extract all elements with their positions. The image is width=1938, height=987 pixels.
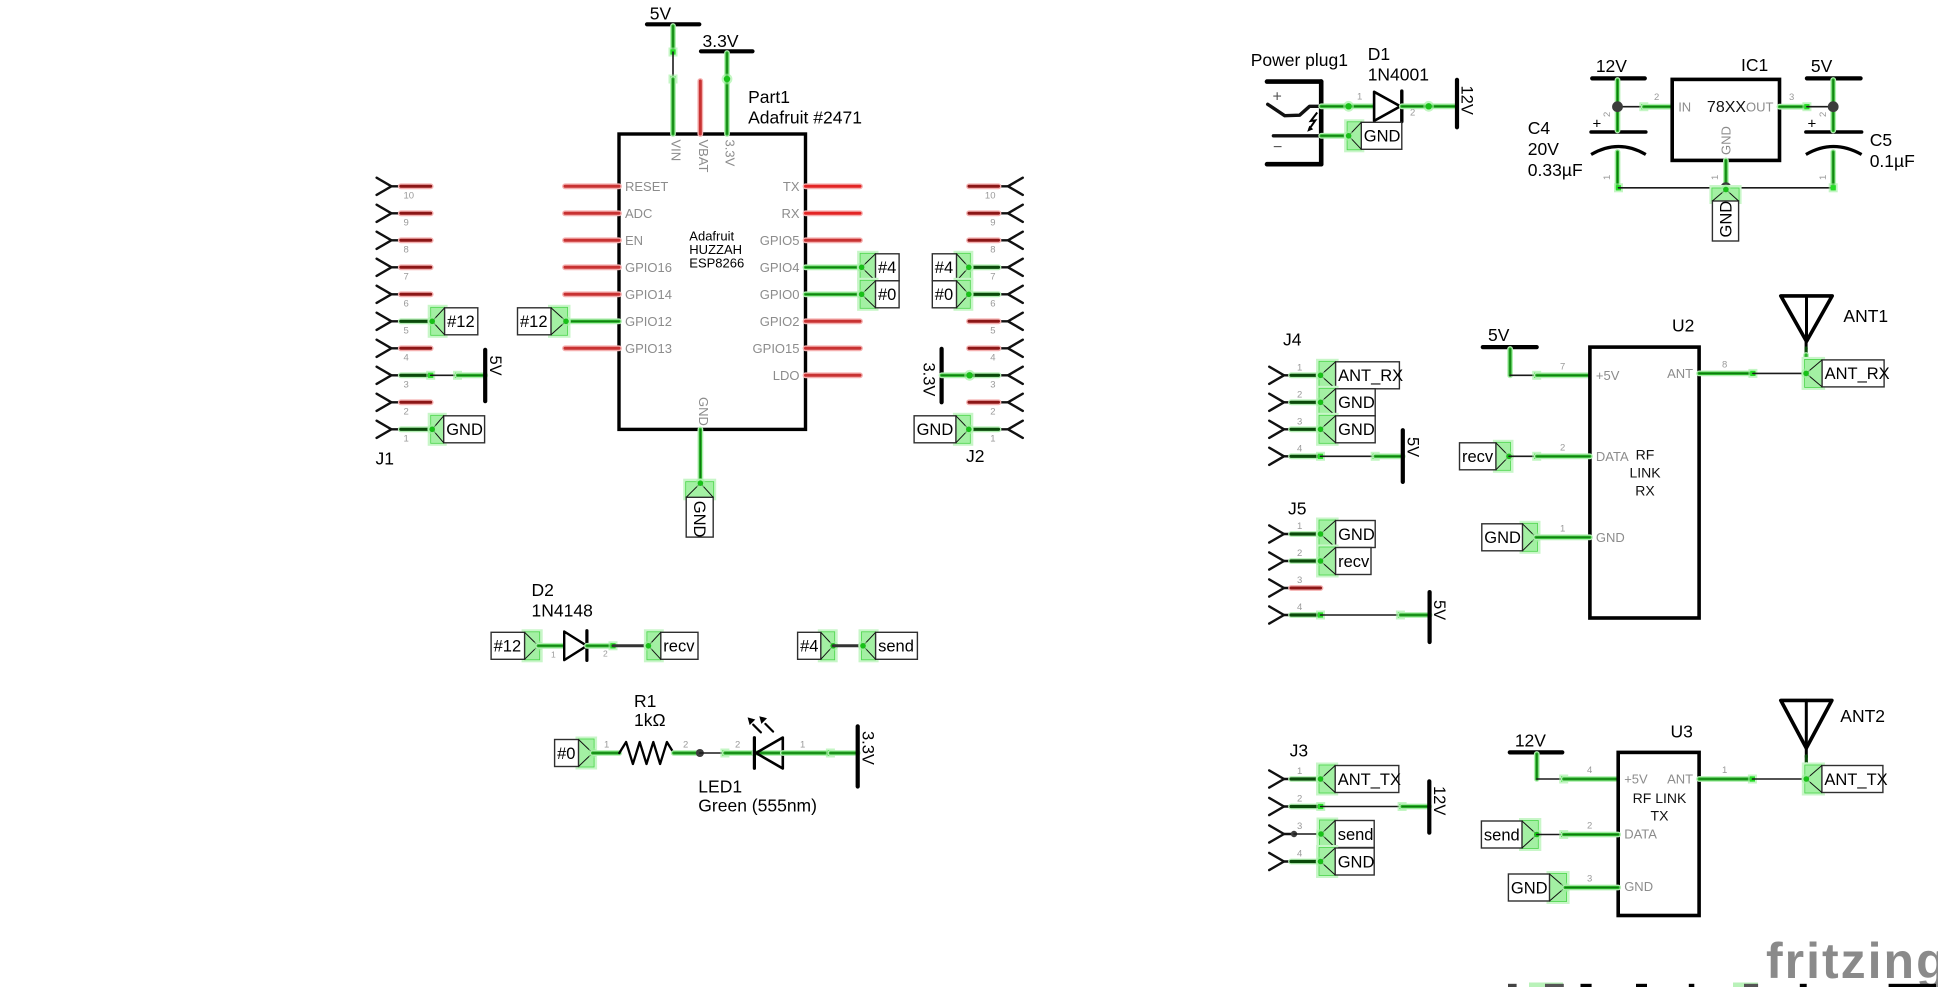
svg-text:J5: J5 [1288,499,1306,519]
power symbol 12V at J3.2 [1429,781,1448,832]
svg-text:2: 2 [1602,112,1613,117]
plug polarity marks + - [1273,89,1283,157]
svg-text:D1: D1 [1368,44,1390,64]
J1 pin number 2 [404,407,409,418]
J2 pin 9 socket [999,205,1023,222]
svg-text:GPIO15: GPIO15 [753,341,800,356]
net label #0 at J2.6 [932,278,974,311]
svg-text:3: 3 [990,380,995,391]
designator J1 [376,449,394,469]
plug lightning mark [1307,113,1317,132]
junction 3.3V pin to chip [722,74,733,85]
U3 pin number 2 [1587,821,1592,832]
J1 pin 5 stub green [401,318,431,324]
svg-text:Adafruit #2471: Adafruit #2471 [748,108,862,128]
svg-text:2: 2 [1587,821,1592,832]
net label ANT_TX at J3.1 [1316,763,1401,796]
svg-text:GND: GND [446,421,483,439]
svg-text:2: 2 [603,649,608,659]
svg-text:GND: GND [1484,529,1521,547]
svg-text:1: 1 [1710,175,1721,180]
U2 pin 7 wire [1537,372,1590,378]
designator Part1 / Adafruit #2471 [748,87,862,128]
svg-text:DATA: DATA [1596,449,1629,464]
junction R1 to wire [696,749,704,757]
svg-text:GPIO14: GPIO14 [625,287,672,302]
D2 pin number 1 [551,650,556,660]
J1 pin 2 stub red [401,399,431,405]
C5 pin 1 wire [1830,152,1836,188]
J3 pin number 1 [1297,766,1302,777]
designator ANT1 [1843,306,1888,326]
svg-text:4: 4 [990,353,995,364]
svg-text:8: 8 [404,245,409,256]
J1 pin 10 stub red [401,183,431,189]
J2 pin number 10 [985,191,996,202]
pin of 5V symbol at J1.3 [458,372,486,378]
wire R1 to LED1 [700,749,730,758]
pin of 3.3V power symbol [724,53,730,79]
power symbol 3.3V at J2.3 [919,349,941,402]
designator Power plug1 [1251,50,1348,70]
svg-text:5V: 5V [1430,600,1448,620]
net label ANT_RX at J4.1 [1316,359,1404,392]
pin ADC red [565,206,652,221]
svg-text:4: 4 [1587,765,1592,776]
svg-text:1: 1 [990,434,995,445]
pin of 3.3V symbol at J2.3 [942,372,970,378]
svg-text:GND: GND [1338,853,1375,871]
J1 pin number 7 [404,272,409,283]
J1 pin 4 socket [377,340,401,357]
svg-text:9: 9 [404,218,409,229]
IC1 pin OUT wire [1780,102,1812,111]
J2 pin number 5 [990,326,995,337]
pin GPIO15 red [753,341,860,356]
svg-text:3.3V: 3.3V [919,363,937,397]
wire 12V to IC1 IN [1618,102,1649,111]
J4 pin number 1 [1297,362,1302,373]
J2 pin number 3 [990,380,995,391]
svg-text:5: 5 [404,326,409,337]
J1 pin number 4 [404,353,409,364]
designator J4 [1283,330,1302,350]
J3 pin 1 stub green [1291,776,1321,782]
J2 pin 9 stub red [969,210,999,216]
svg-text:ANT2: ANT2 [1840,706,1885,726]
pin of 5V power symbol [670,26,676,52]
svg-text:DATA: DATA [1624,827,1657,842]
svg-text:ANT: ANT [1667,772,1693,787]
svg-text:recv: recv [1462,448,1494,466]
J3 pin number 2 [1297,794,1302,805]
svg-text:GND: GND [1338,421,1375,439]
junction 12V rail [1612,101,1623,112]
svg-text:2: 2 [404,407,409,418]
J4 pin number 3 [1297,416,1302,427]
J2 pin 3 stub green [969,372,999,378]
J3 pin 1 socket [1269,770,1293,787]
U2 pin number 7 [1560,362,1565,373]
svg-text:RX: RX [1635,483,1655,499]
D1 pin number 2 [1410,108,1415,119]
J2 pin 2 stub red [969,399,999,405]
J5 pin 3 socket [1269,579,1293,596]
svg-text:send: send [878,638,914,656]
J3 pin 4 socket [1269,853,1293,870]
designator IC1 [1741,55,1768,75]
J2 pin number 8 [990,245,995,256]
power plug body [1267,82,1321,165]
wire J3.3 to send [1291,830,1325,839]
designator R1 1k [634,691,666,730]
U2 pin number 2 [1560,443,1565,454]
J3 pin 2 stub green [1291,802,1325,811]
J2 pin 8 socket [999,232,1023,249]
svg-text:1N4001: 1N4001 [1368,65,1429,85]
J2 pin number 2 [990,407,995,418]
svg-text:5V: 5V [1488,325,1510,345]
J3 pin number 3 [1297,821,1302,832]
J3 pin 2 socket [1269,798,1293,815]
IC1 GND pin number 1 [1710,175,1721,180]
power symbol 5V at J4.4 [1403,430,1422,482]
svg-text:10: 10 [404,191,415,202]
C5 pin number 1 [1818,175,1829,180]
svg-text:IN: IN [1678,99,1691,114]
svg-text:+: + [1273,89,1282,106]
svg-text:+5V: +5V [1624,772,1648,787]
svg-text:R1: R1 [634,691,656,711]
J2 pin number 9 [990,218,995,229]
J2 pin 10 socket [999,178,1023,195]
net label #4 at J2.7 [932,251,974,284]
svg-text:1: 1 [1722,765,1727,776]
wire plug minus to GND [1321,133,1348,139]
J2 pin 5 stub red [969,318,999,324]
pin GPIO13 red [565,341,672,356]
J2 pin number 7 [990,272,995,283]
R1 pin number 1 [604,740,609,751]
power symbol 5V at U2 [1483,325,1537,347]
svg-text:Power plug1: Power plug1 [1251,50,1348,70]
J5 pin 3 stub red [1291,585,1321,591]
net label GND at J1.1 [427,413,484,446]
designator U3 [1671,722,1693,742]
plug plus contact [1268,104,1322,115]
wire 12V to U3 +5V [1537,775,1568,784]
diode D1 [1374,91,1402,122]
J5 pin 1 stub green [1291,531,1321,537]
svg-text:#0: #0 [878,286,896,304]
J1 pin 6 stub red [401,291,431,297]
pin of 12V symbol at J3 [1402,804,1429,810]
svg-text:recv: recv [1338,553,1370,571]
designator ANT2 [1840,706,1885,726]
designator J3 [1290,741,1308,761]
designator J2 [966,446,984,466]
power symbol 3.3V top [701,31,753,51]
U2 pin labels [1596,366,1693,545]
J1 pin 7 stub red [401,264,431,270]
wire #0 to R1 [593,750,620,756]
pin TX red bright [783,179,860,194]
wire J3.2 to 12V [1321,802,1407,811]
svg-text:TX: TX [1651,808,1670,824]
diode D2 [564,631,587,661]
svg-text:2: 2 [1654,92,1659,103]
J1 pin number 3 [404,380,409,391]
IC1 pin labels IN 78XX OUT GND [1678,99,1773,155]
J1 pin 9 stub red [401,210,431,216]
wire recv to U2 DATA [1509,452,1541,461]
svg-text:6: 6 [404,299,409,310]
J1 pin 8 socket [377,232,401,249]
svg-text:GND: GND [1338,526,1375,544]
svg-text:GND: GND [696,397,711,426]
plug minus contact [1273,134,1321,137]
wire J4.4 to 5V [1316,452,1380,461]
svg-text:4: 4 [1297,443,1302,454]
svg-text:RX: RX [781,206,799,221]
J2 pin 6 stub green [969,291,999,297]
pin of 12V symbol at U3 [1534,754,1540,779]
svg-text:fritzing: fritzing [1766,933,1938,987]
svg-text:J3: J3 [1290,741,1308,761]
capacitor C5 [1806,116,1862,155]
svg-text:LINK: LINK [1629,465,1661,481]
svg-text:2: 2 [1297,548,1302,559]
C5 pin number 2 [1818,112,1829,117]
net label #12 at D2 [491,629,543,662]
module U2 RF LINK RX body [1590,347,1699,618]
svg-text:EN: EN [625,233,643,248]
svg-text:GND: GND [1719,126,1734,155]
svg-text:4: 4 [1297,602,1302,613]
svg-text:9: 9 [990,218,995,229]
LED1 anode wire [783,749,858,758]
svg-text:+: + [1593,116,1602,133]
U2 title RF LINK RX [1629,447,1661,499]
pin RX red bright [781,206,860,221]
wire 5V to VIN [669,48,678,84]
IC1 pin number 2 [1654,92,1659,103]
ground rail wire [1614,183,1838,192]
junction 5V rail [1828,101,1839,112]
power symbol 12V at U3 [1510,731,1563,753]
designator U2 [1672,316,1694,336]
svg-text:OUT: OUT [1746,99,1774,114]
pin of 5V symbol at IC1 [1830,80,1836,107]
svg-text:5V: 5V [1404,437,1422,457]
J1 pin number 8 [404,245,409,256]
J1 pin 1 stub green [401,426,431,432]
svg-text:GND: GND [690,501,708,538]
svg-text:#4: #4 [800,638,818,656]
R1 pin number 2 [683,740,688,751]
J5 pin 2 stub green [1291,558,1321,564]
J2 pin 7 stub green [969,264,999,270]
svg-text:recv: recv [663,638,695,656]
pin of 12V symbol [1615,80,1621,107]
pin of 5V symbol at J4 [1375,453,1403,459]
svg-text:4: 4 [1297,849,1302,860]
svg-text:#4: #4 [935,259,953,277]
IC1 pin number 3 [1789,92,1794,103]
svg-text:GPIO5: GPIO5 [760,233,800,248]
pin VBAT [696,81,711,173]
pin GPIO14 red [565,287,672,302]
J2 pin number 1 [990,434,995,445]
pin 3.3V of chip [723,79,738,167]
net label GND below chip [683,478,716,537]
power symbol 3.3V at LED1 [858,726,877,786]
J4 pin number 2 [1297,389,1302,400]
svg-text:3.3V: 3.3V [703,31,739,51]
svg-text:J2: J2 [966,446,984,466]
pin GPIO12 green [565,314,672,329]
svg-text:ESP8266: ESP8266 [689,256,744,271]
chip Part1 Adafruit HUZZAH ESP8266 body [619,134,806,429]
J4 pin 4 stub green [1291,453,1321,459]
pin GPIO0 green [760,287,861,302]
svg-text:GND: GND [917,421,954,439]
net label #12 at J1.5 [427,305,478,338]
svg-text:2: 2 [1297,389,1302,400]
C4 pin number 2 [1602,112,1613,117]
power symbol 5V at J5.4 [1430,592,1449,642]
J2 pin 4 socket [999,340,1023,357]
J4 pin 1 stub green [1291,372,1321,378]
value C4 20V 0.33uF [1528,118,1583,180]
svg-text:IC1: IC1 [1741,55,1768,75]
svg-text:1: 1 [604,740,609,751]
svg-text:#12: #12 [520,313,548,331]
svg-text:#12: #12 [447,313,475,331]
J2 pin 1 socket [999,421,1023,438]
J1 pin 4 stub red [401,345,431,351]
J4 pin 1 socket [1269,367,1293,384]
svg-text:1: 1 [551,650,556,660]
J4 pin 3 stub green [1291,426,1321,432]
power symbol 12V at IC1 [1592,56,1645,78]
U2 pin number 8 [1722,360,1727,371]
svg-text:1: 1 [404,434,409,445]
antenna ANT2 [1781,700,1832,779]
net label send at J3.3 [1316,818,1374,851]
U2 pin number 1 [1560,524,1565,535]
cut-off elements at bottom edge [1508,983,1936,987]
J5 pin 4 stub green [1291,612,1321,618]
svg-text:LDO: LDO [773,368,800,383]
LED LED1 [754,738,782,769]
designator D1 1N4001 [1368,44,1429,85]
svg-text:1: 1 [1297,766,1302,777]
J1 pin 6 socket [377,286,401,303]
U3 pin number 1 [1722,765,1727,776]
svg-text:5V: 5V [1811,56,1833,76]
net label GND at J3.4 [1316,845,1375,878]
svg-text:TX: TX [783,179,800,194]
svg-text:12V: 12V [1458,86,1476,115]
net label GND at J2.1 [914,413,974,446]
J1 pin number 5 [404,326,409,337]
J1 pin 3 stub green [401,372,431,378]
part title text Adafruit HUZZAH ESP8266 [689,229,744,271]
designator J5 [1288,499,1306,519]
svg-text:3: 3 [1789,92,1794,103]
pin GPIO2 red [760,314,860,329]
svg-text:3: 3 [1297,416,1302,427]
J2 pin 3 socket [999,367,1023,384]
net label send at #4 wire [858,629,917,662]
power symbol 5V top [647,4,699,25]
svg-text:3: 3 [1297,821,1302,832]
U3 pin number 4 [1587,765,1592,776]
pin GPIO5 red [760,233,860,248]
J2 pin 6 socket [999,286,1023,303]
J1 pin 5 socket [377,313,401,330]
svg-text:GND: GND [1364,128,1401,146]
svg-text:D2: D2 [532,580,554,600]
LED1 pin number 1 [800,740,805,751]
svg-text:2: 2 [1560,443,1565,454]
net label GND at plug [1344,119,1402,152]
C5 pin 2 wire [1830,107,1836,131]
svg-text:1: 1 [1560,524,1565,535]
net label recv at U2 [1460,440,1515,473]
svg-text:10: 10 [985,191,996,202]
svg-text:78XX: 78XX [1707,99,1746,116]
J1 pin number 10 [404,191,415,202]
svg-text:RF LINK: RF LINK [1633,790,1687,806]
svg-text:3: 3 [404,380,409,391]
U3 pin number 3 [1587,874,1592,885]
svg-text:send: send [1338,826,1374,844]
U3 pin 1 ANT wire [1699,775,1757,784]
svg-text:5V: 5V [486,356,504,376]
U3 title RF LINK TX [1633,790,1687,824]
J2 pin 10 stub red [969,183,999,189]
svg-text:ANT_TX: ANT_TX [1824,771,1887,789]
power symbol 5V at J1.3 [485,350,504,401]
net label GND at U2 [1482,521,1541,554]
J2 pin 1 stub green [969,426,999,432]
J5 pin number 3 [1297,575,1302,586]
svg-text:GND: GND [1624,879,1653,894]
svg-text:12V: 12V [1515,731,1546,751]
svg-text:RESET: RESET [625,179,668,194]
wire #12 to D2 anode [538,643,564,649]
J5 pin number 1 [1297,521,1302,532]
wire send to U3 DATA [1537,830,1568,839]
J2 pin 8 stub red [969,237,999,243]
svg-text:Green (555nm): Green (555nm) [698,796,817,816]
power symbol 5V at IC1 [1807,56,1861,78]
svg-text:ANT_RX: ANT_RX [1338,367,1403,385]
svg-text:3: 3 [1587,874,1592,885]
J1 pin 3 socket [377,367,401,384]
pin of 5V symbol at U2 [1507,349,1513,375]
U2 pin 8 ANT wire [1699,369,1757,378]
svg-text:2: 2 [990,407,995,418]
svg-text:GPIO4: GPIO4 [760,260,800,275]
svg-text:GND: GND [1511,879,1548,897]
U3 pin 4 wire [1564,776,1619,782]
J3 pin number 4 [1297,849,1302,860]
net label #0 at GPIO0 [857,278,900,311]
svg-text:4: 4 [404,353,409,364]
